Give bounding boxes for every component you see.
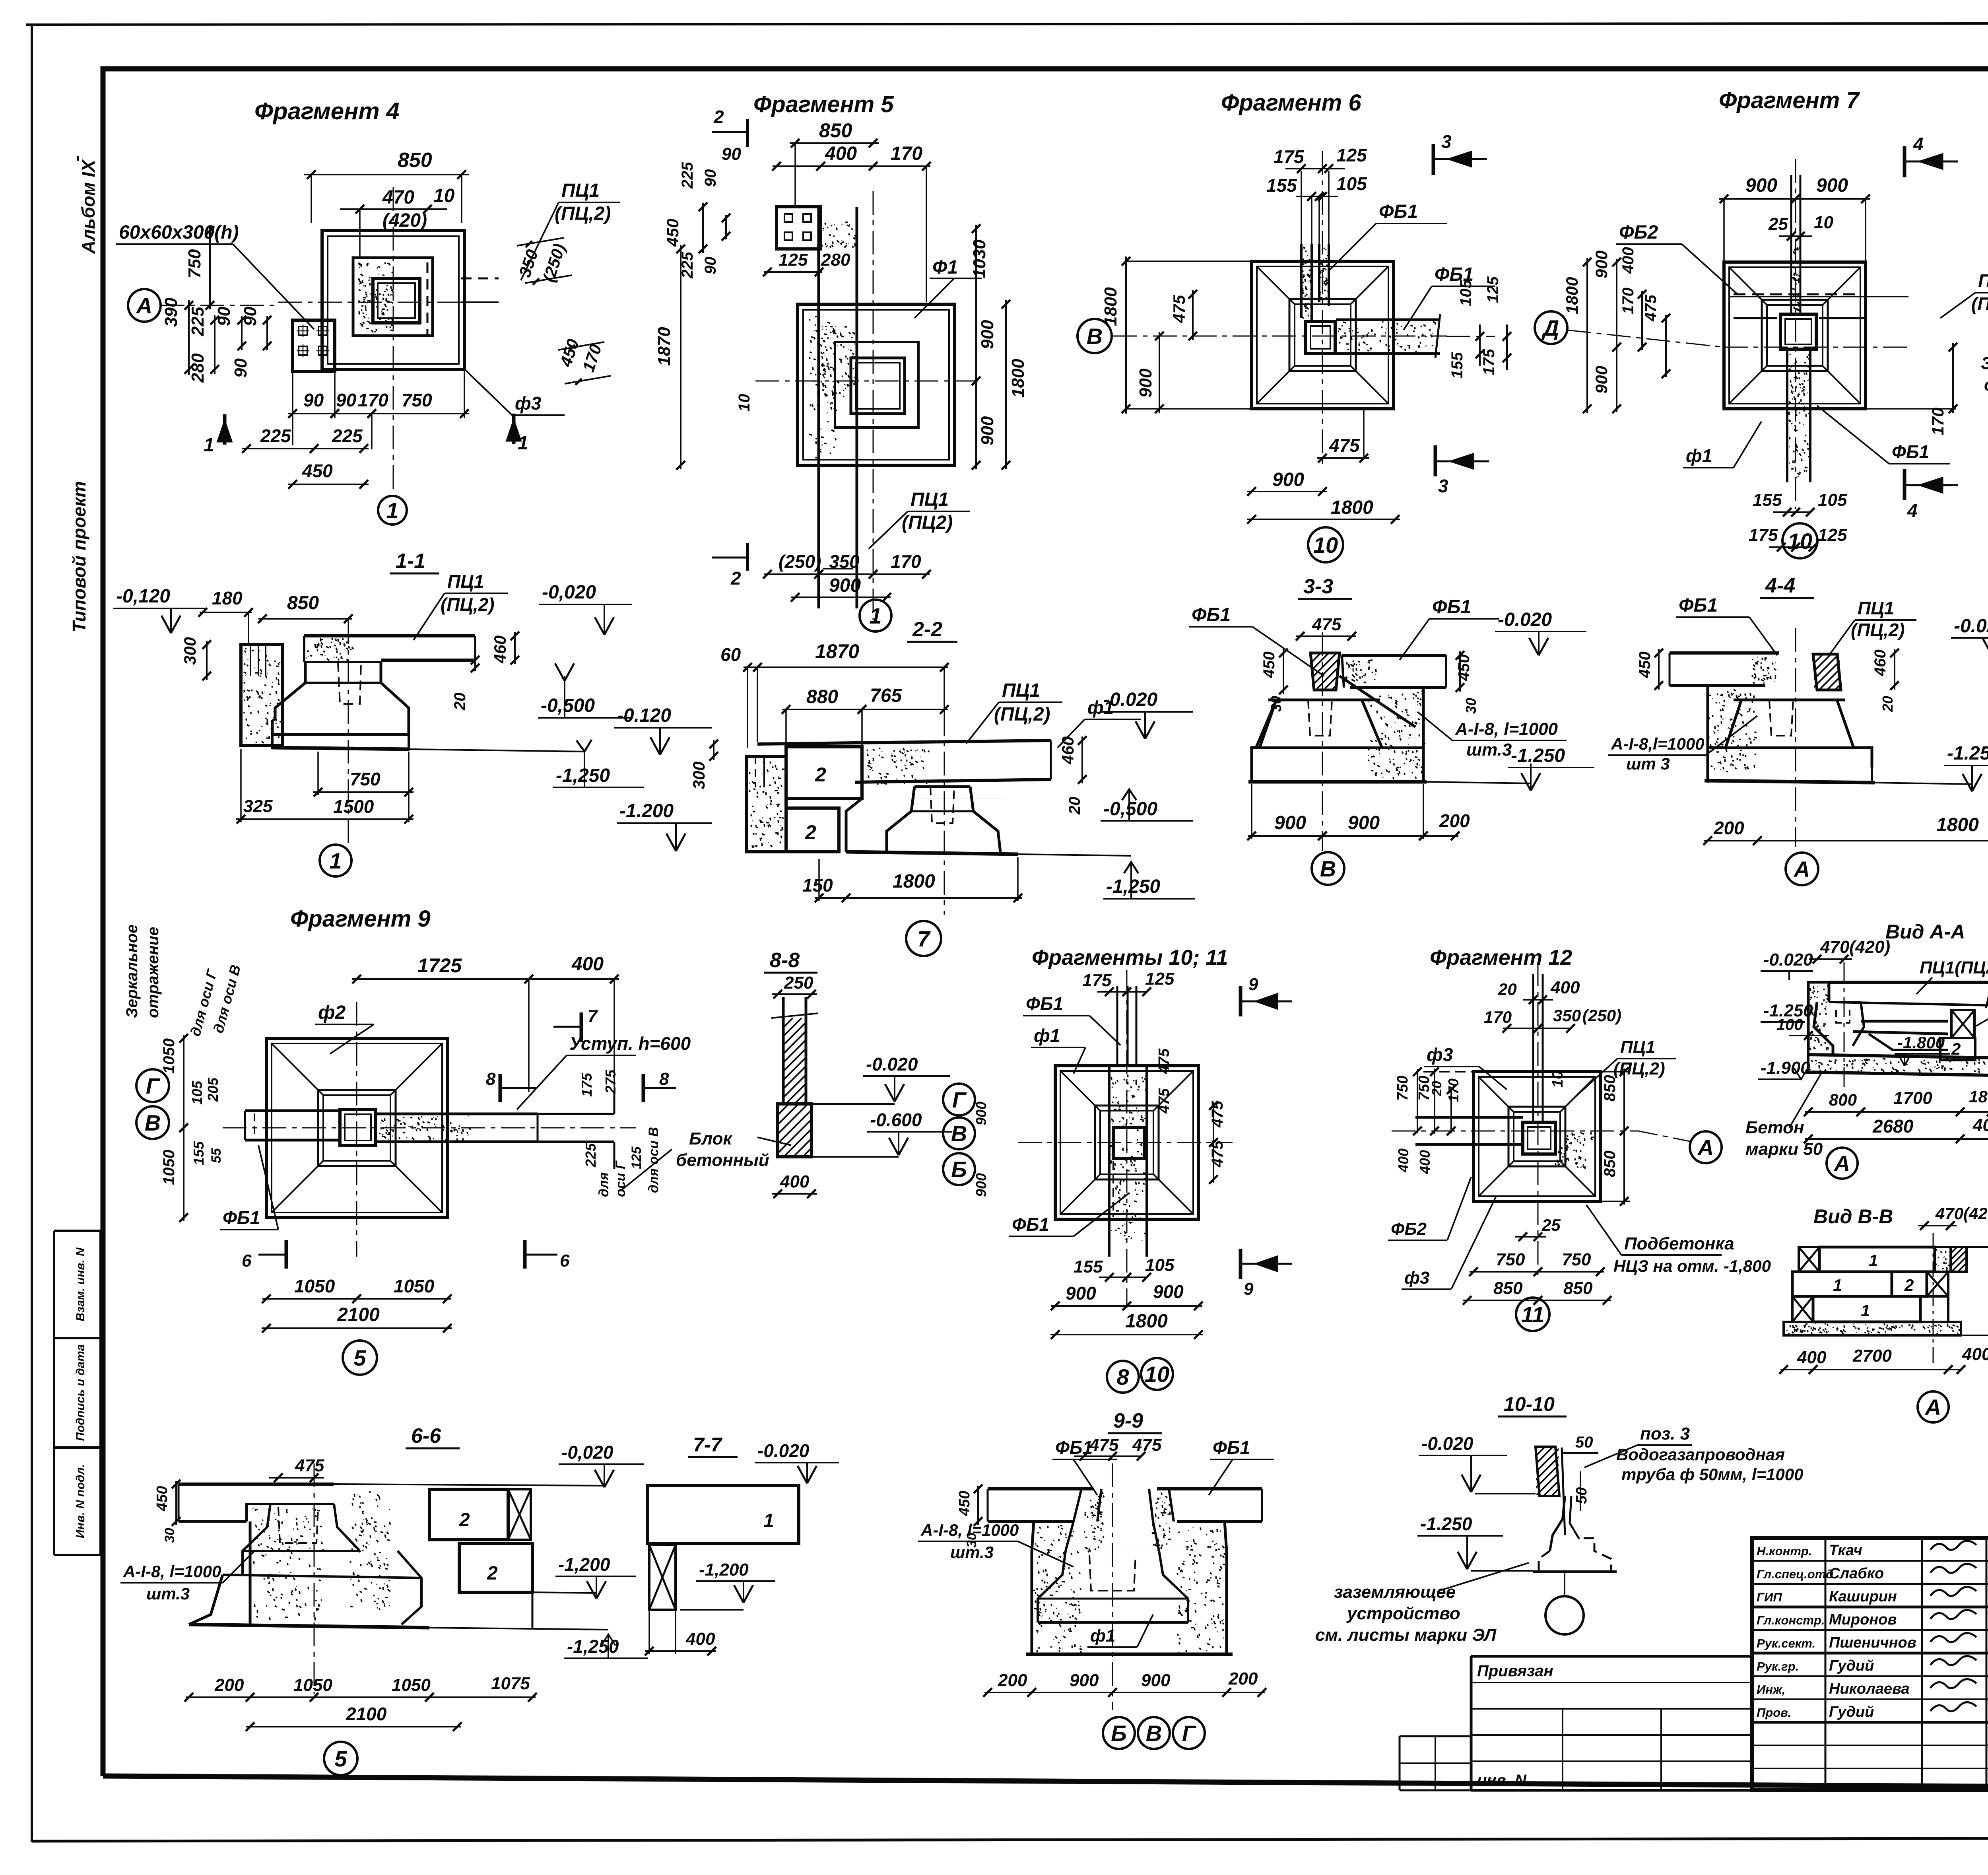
svg-text:А-I-8,l=1000: А-I-8,l=1000: [1611, 734, 1705, 753]
svg-text:60: 60: [720, 644, 741, 665]
svg-text:ПЦ1: ПЦ1: [1978, 270, 1988, 291]
fragment 12 center column square: [1523, 1122, 1555, 1154]
node circle А: [128, 289, 161, 322]
svg-text:470(420): 470(420): [1820, 937, 1890, 957]
svg-text:900: 900: [1274, 812, 1306, 834]
svg-text:460: 460: [491, 635, 509, 664]
svg-text:850: 850: [1601, 1075, 1619, 1102]
svg-text:170: 170: [358, 390, 388, 410]
svg-text:150: 150: [802, 875, 833, 896]
fragment 12 plan envelope square: [1474, 1072, 1600, 1201]
svg-text:90: 90: [231, 358, 250, 378]
svg-text:30: 30: [1268, 696, 1284, 712]
section 6-6 centerline: [314, 1463, 315, 1694]
svg-text:900: 900: [829, 575, 861, 596]
svg-text:9-9: 9-9: [1113, 1409, 1143, 1432]
fragment 9 bottom section marks 6: [285, 1240, 288, 1269]
section mark 1 right: [512, 414, 516, 444]
section 4-4 beam left: [1670, 651, 1779, 655]
section 3-3 beam right: [1342, 654, 1446, 657]
section 6-6 beam top left: [179, 1483, 334, 1486]
vid A-A left speckled band: [1808, 982, 1829, 1050]
svg-text:отражение: отражение: [1984, 375, 1988, 394]
vid A-A top slab: [1829, 981, 1988, 984]
svg-text:А-I-8, l=1000: А-I-8, l=1000: [123, 1562, 221, 1581]
section 9-9 base slab: [1026, 1653, 1233, 1656]
svg-text:В: В: [1320, 856, 1336, 881]
svg-text:ПЦ1: ПЦ1: [447, 571, 484, 592]
svg-text:850: 850: [1563, 1278, 1593, 1298]
svg-text:ПЦ1: ПЦ1: [561, 180, 600, 201]
fragment 6 plan envelope square: [1252, 261, 1394, 409]
svg-text:Пров.: Пров.: [1757, 1706, 1792, 1720]
section 7-7 beam 1: [648, 1486, 799, 1543]
section 9-9 speckled outer mass: [1032, 1551, 1227, 1654]
section 1-1 centerline: [348, 620, 349, 843]
svg-text:475: 475: [1209, 1101, 1226, 1128]
svg-text:90: 90: [303, 390, 324, 410]
svg-text:100: 100: [1776, 1016, 1803, 1034]
svg-text:6: 6: [560, 1251, 570, 1271]
svg-text:280: 280: [821, 250, 850, 270]
svg-text:Рук.сект.: Рук.сект.: [1757, 1636, 1815, 1650]
section 2-2 left pier speckled: [747, 756, 786, 852]
section 4-4 centerline: [1795, 628, 1796, 847]
svg-text:1800: 1800: [1008, 359, 1028, 398]
vid V-V base slab: [1784, 1322, 1961, 1335]
fragment 5 plan outer square: [798, 304, 955, 465]
svg-text:бетонный: бетонный: [676, 1150, 769, 1170]
svg-text:200: 200: [1713, 818, 1744, 838]
svg-text:ф1: ф1: [1686, 445, 1712, 466]
fragments 10-11 vertical strips: [1116, 986, 1118, 1066]
svg-text:ФБ1: ФБ1: [1012, 1214, 1049, 1235]
svg-text:ФБ2: ФБ2: [1391, 1219, 1427, 1239]
vid A-A middle plate: [1861, 1020, 1948, 1023]
fragment 5 bolt plate top: [777, 207, 821, 249]
svg-text:Рук.гр.: Рук.гр.: [1757, 1659, 1799, 1673]
title block left columns verticals: [1825, 1538, 1827, 1790]
svg-text:475: 475: [1170, 295, 1188, 323]
svg-text:170: 170: [891, 551, 921, 572]
svg-text:2: 2: [805, 821, 816, 843]
привязан mini table: [1471, 1655, 1752, 1658]
svg-text:125: 125: [629, 1146, 644, 1169]
svg-text:6-6: 6-6: [411, 1424, 441, 1448]
svg-text:105: 105: [1145, 1255, 1175, 1275]
svg-text:3-3: 3-3: [1303, 575, 1333, 598]
vid V-V top row: [1799, 1247, 1819, 1272]
section mark 4 bottom right: [1903, 469, 1906, 500]
svg-text:1800: 1800: [1125, 1311, 1168, 1332]
svg-text:900: 900: [973, 1102, 989, 1125]
svg-text:7-7: 7-7: [693, 1434, 722, 1456]
svg-text:1725: 1725: [417, 954, 462, 977]
axis circle 5 6-6: [324, 1742, 357, 1775]
fragment 7 centerlines: [1724, 347, 1908, 348]
fragment 7 vertical strip bottom speckled: [1786, 349, 1788, 482]
svg-text:750: 750: [350, 769, 381, 789]
svg-text:225: 225: [679, 162, 696, 189]
svg-text:-0,020: -0,020: [561, 1442, 613, 1463]
svg-text:марки 50: марки 50: [1745, 1139, 1823, 1159]
svg-text:Зеркальное: Зеркальное: [1981, 354, 1988, 373]
svg-text:900: 900: [978, 320, 997, 349]
svg-text:ф2: ф2: [318, 1002, 346, 1023]
svg-text:Гудий: Гудий: [1829, 1704, 1874, 1720]
section 1-1 base slab: [272, 720, 409, 734]
section mark 2 top: [746, 119, 749, 147]
svg-text:10: 10: [1788, 528, 1812, 554]
svg-text:Зеркальное: Зеркальное: [123, 925, 141, 1018]
svg-text:400: 400: [1395, 1148, 1411, 1173]
fragments 10-11 center square: [1113, 1127, 1144, 1158]
vid A-A x-box and block 2: [1951, 1010, 1974, 1038]
svg-text:-1,250: -1,250: [556, 765, 610, 786]
svg-text:8: 8: [486, 1069, 496, 1089]
svg-text:200: 200: [998, 1671, 1027, 1690]
section 4-4 hatched block right: [1813, 654, 1841, 690]
section 3-3 hatched block ФБ1: [1310, 653, 1340, 690]
svg-text:1030: 1030: [970, 239, 989, 278]
axis circle А vid A-A: [1827, 1148, 1858, 1179]
svg-text:-1.250: -1.250: [1511, 745, 1565, 766]
svg-text:475: 475: [1156, 1088, 1173, 1114]
section 1-1 beam ПЦ1: [304, 634, 475, 637]
section 9-9 inner trapezoid: [1038, 1551, 1066, 1622]
svg-text:170: 170: [1928, 408, 1947, 435]
svg-text:-0.020: -0.020: [757, 1440, 810, 1461]
svg-text:1800: 1800: [1331, 497, 1373, 518]
svg-text:1: 1: [1861, 1301, 1870, 1320]
svg-text:750: 750: [1562, 1250, 1591, 1269]
svg-text:1: 1: [386, 498, 398, 523]
svg-text:25: 25: [1541, 1216, 1561, 1234]
svg-text:Ткач: Ткач: [1829, 1542, 1862, 1559]
svg-text:Пшеничнов: Пшеничнов: [1829, 1634, 1916, 1651]
svg-text:-0.020: -0.020: [1763, 950, 1813, 970]
svg-text:125: 125: [1336, 145, 1367, 165]
fragment 4 plan inner concrete square speckled: [353, 258, 433, 336]
svg-text:3: 3: [1438, 476, 1448, 496]
svg-text:225: 225: [260, 426, 291, 446]
svg-text:-0,120: -0,120: [116, 586, 170, 607]
svg-text:Фрагмент 4: Фрагмент 4: [254, 98, 400, 124]
svg-text:(250): (250): [779, 551, 821, 572]
svg-text:850: 850: [819, 119, 852, 142]
svg-text:750: 750: [1496, 1250, 1525, 1269]
svg-text:Б: Б: [951, 1157, 967, 1182]
svg-text:устройство: устройство: [1346, 1604, 1460, 1623]
fragment 12 vertical lines top: [1532, 974, 1534, 1122]
svg-text:1075: 1075: [491, 1674, 530, 1693]
svg-text:Б: Б: [1111, 1721, 1127, 1746]
svg-text:20: 20: [1498, 980, 1517, 999]
svg-text:9: 9: [1248, 975, 1258, 994]
svg-text:(ПЦ,2): (ПЦ,2): [441, 594, 495, 615]
svg-text:-0.020: -0.020: [1103, 689, 1157, 710]
svg-text:175: 175: [1749, 525, 1778, 545]
svg-text:5: 5: [334, 1746, 347, 1771]
svg-text:90: 90: [241, 307, 260, 326]
svg-text:200: 200: [214, 1675, 244, 1695]
svg-text:см. листы марки ЭЛ: см. листы марки ЭЛ: [1315, 1625, 1497, 1645]
svg-text:175: 175: [579, 1073, 595, 1097]
section 6-6 base: [223, 1575, 421, 1578]
svg-text:1800: 1800: [893, 871, 935, 892]
svg-text:ф1: ф1: [1090, 1626, 1115, 1646]
svg-text:450: 450: [956, 1491, 973, 1516]
svg-text:105: 105: [1336, 173, 1367, 194]
svg-text:-1.250: -1.250: [1947, 743, 1988, 764]
svg-text:900: 900: [1066, 1283, 1096, 1304]
svg-text:460: 460: [1058, 736, 1077, 765]
svg-text:Фрагмент 5: Фрагмент 5: [753, 91, 894, 117]
svg-text:275: 275: [602, 1069, 619, 1094]
svg-text:155: 155: [1753, 490, 1782, 510]
svg-text:Альбом IХ: Альбом IХ: [78, 159, 99, 254]
section mark 1 left: [223, 414, 227, 445]
left small boxes near привязан: [1400, 1735, 1471, 1737]
svg-text:Инв. N подл.: Инв. N подл.: [74, 1464, 87, 1539]
section 6-6 block 2 lower: [459, 1543, 532, 1592]
svg-text:1050: 1050: [392, 1675, 431, 1695]
svg-text:175: 175: [1082, 971, 1112, 990]
svg-text:труба ф 50мм, l=1000: труба ф 50мм, l=1000: [1621, 1465, 1803, 1484]
section 3-3 dashed pocket: [1308, 700, 1332, 736]
axis circle 11 fragment 12: [1516, 1298, 1549, 1331]
svg-text:ФБ1: ФБ1: [1432, 597, 1471, 618]
svg-text:1870: 1870: [815, 640, 859, 663]
svg-text:Водогазапроводная: Водогазапроводная: [1616, 1445, 1785, 1464]
svg-text:400: 400: [1619, 247, 1637, 274]
svg-text:400: 400: [1962, 1345, 1988, 1364]
svg-text:1-1: 1-1: [396, 550, 425, 573]
svg-text:1: 1: [329, 848, 342, 873]
svg-text:инв. N: инв. N: [1477, 1772, 1527, 1789]
svg-text:Блок: Блок: [689, 1129, 733, 1148]
svg-text:1800: 1800: [1101, 287, 1120, 326]
svg-text:А: А: [136, 293, 152, 318]
section 6-6 block 2 with xbox: [429, 1489, 508, 1540]
svg-text:90: 90: [702, 257, 719, 275]
svg-text:Слабко: Слабко: [1829, 1565, 1884, 1582]
svg-text:10: 10: [433, 185, 455, 206]
svg-text:125: 125: [1484, 276, 1502, 303]
axis circle А vid V-V: [1918, 1391, 1949, 1422]
svg-text:470: 470: [382, 187, 414, 208]
svg-text:50: 50: [1575, 1434, 1593, 1451]
svg-text:900: 900: [978, 416, 997, 445]
svg-text:400: 400: [1417, 1150, 1433, 1174]
svg-text:ф1: ф1: [1034, 1025, 1060, 1046]
svg-text:Гл.спец.отд: Гл.спец.отд: [1757, 1567, 1833, 1581]
fragment 5 centerlines: [755, 381, 978, 382]
svg-text:1: 1: [869, 603, 881, 628]
circle В fragment 6: [1077, 319, 1112, 353]
svg-text:25: 25: [1768, 214, 1788, 234]
svg-text:2680: 2680: [1872, 1116, 1914, 1137]
svg-text:-1,200: -1,200: [699, 1560, 749, 1580]
svg-text:170: 170: [1619, 288, 1637, 314]
svg-text:1: 1: [518, 433, 528, 454]
svg-text:900: 900: [1153, 1281, 1184, 1302]
svg-text:800: 800: [1829, 1090, 1857, 1109]
svg-text:105: 105: [1457, 280, 1475, 306]
svg-text:В: В: [951, 1121, 967, 1146]
section mark 3 top right: [1432, 144, 1435, 175]
fragment 6 vertical strips ФБ1: [1300, 244, 1303, 318]
svg-text:Вид А-А: Вид А-А: [1885, 921, 1965, 943]
svg-text:1050: 1050: [294, 1276, 335, 1296]
svg-text:4: 4: [1907, 500, 1918, 521]
svg-text:900: 900: [1070, 1671, 1099, 1690]
svg-text:Фрагмент 6: Фрагмент 6: [1221, 90, 1361, 116]
svg-text:Николаева: Николаева: [1829, 1681, 1910, 1697]
svg-text:105: 105: [1818, 490, 1847, 510]
svg-text:8-8: 8-8: [770, 949, 800, 972]
svg-text:10: 10: [1145, 1362, 1169, 1387]
svg-text:400: 400: [571, 954, 604, 975]
svg-text:ПЦ1: ПЦ1: [911, 489, 949, 510]
svg-text:Г: Г: [952, 1087, 967, 1112]
svg-text:ФБ1: ФБ1: [1026, 993, 1063, 1014]
svg-text:2: 2: [459, 1510, 470, 1531]
fragment 5 inner squares: [835, 342, 918, 427]
fragment 9 centerlines: [223, 1127, 636, 1129]
svg-text:180: 180: [212, 588, 243, 608]
section 10-10 hatched post: [1536, 1447, 1559, 1496]
fragments 10-11 centerlines: [1018, 1142, 1233, 1143]
section 8-8 hatched column: [782, 997, 785, 1104]
section 2-2 dashed pocket: [930, 787, 954, 823]
svg-text:Взам. инв. N: Взам. инв. N: [74, 1247, 87, 1321]
svg-text:400: 400: [1972, 1115, 1988, 1135]
section 9-9 pier columns speckled: [1066, 1489, 1081, 1551]
fragment 9 beam strip right speckled: [376, 1113, 538, 1115]
svg-text:225: 225: [188, 307, 208, 336]
section mark 9 bottom right: [1239, 1249, 1242, 1279]
svg-text:1700: 1700: [1893, 1088, 1932, 1108]
circle А fragment 12: [1690, 1131, 1722, 1163]
fragment 4 bolt plate: [293, 320, 335, 371]
svg-text:1800: 1800: [1936, 814, 1979, 835]
svg-text:1: 1: [204, 435, 214, 456]
svg-text:Д: Д: [1541, 315, 1559, 340]
svg-text:475: 475: [1089, 1435, 1119, 1455]
svg-text:55: 55: [209, 1148, 224, 1163]
fragment 4 centerlines: [278, 302, 499, 303]
svg-text:2: 2: [1951, 1040, 1961, 1058]
fragment 9 plan envelope square: [266, 1038, 447, 1218]
svg-text:1: 1: [1833, 1276, 1842, 1294]
svg-text:1050: 1050: [293, 1675, 332, 1695]
fragments 10-11 plan envelope square: [1055, 1066, 1198, 1219]
svg-text:-1.250: -1.250: [1420, 1514, 1472, 1534]
section 9-9 beams left right: [988, 1487, 1093, 1490]
svg-text:475: 475: [1312, 615, 1342, 634]
svg-text:Типовой проект: Типовой проект: [69, 481, 89, 632]
svg-text:5: 5: [353, 1345, 366, 1370]
svg-text:10: 10: [1814, 213, 1833, 232]
svg-text:475: 475: [1642, 295, 1660, 322]
svg-text:Миронов: Миронов: [1829, 1611, 1897, 1628]
svg-text:шт 3: шт 3: [1626, 754, 1670, 773]
svg-text:(ПЦ,2): (ПЦ,2): [555, 203, 611, 224]
svg-text:Фрагмент 12: Фрагмент 12: [1430, 946, 1572, 970]
svg-text:1050: 1050: [394, 1276, 435, 1296]
fragment 6 centerlines: [1113, 336, 1447, 337]
axis circle empty 10-10: [1545, 1596, 1584, 1634]
svg-text:1800: 1800: [1563, 277, 1581, 314]
svg-text:200: 200: [1439, 810, 1470, 831]
svg-text:В: В: [1146, 1721, 1162, 1746]
svg-text:30: 30: [964, 1533, 979, 1548]
svg-text:поз. 3: поз. 3: [1640, 1424, 1690, 1444]
fragment 7 vertical strip top: [1790, 175, 1792, 314]
svg-text:180: 180: [1969, 1087, 1988, 1106]
svg-text:460: 460: [1872, 649, 1889, 676]
section 6-6 trapezoid core: [243, 1504, 270, 1575]
section 4-4 speckled mass left: [1708, 690, 1757, 772]
svg-text:1050: 1050: [160, 1038, 178, 1074]
svg-text:ПЦ1: ПЦ1: [1858, 598, 1894, 618]
section 2-2 block 2 upper: [786, 747, 862, 799]
svg-text:А: А: [1924, 1395, 1941, 1420]
svg-text:(ПЦ,2): (ПЦ,2): [994, 704, 1050, 725]
svg-text:900: 900: [1592, 251, 1611, 278]
svg-text:6: 6: [242, 1251, 252, 1271]
svg-text:300: 300: [181, 637, 199, 665]
svg-text:900: 900: [973, 1173, 989, 1197]
svg-text:-0,500: -0,500: [541, 695, 595, 716]
svg-text:475: 475: [295, 1456, 324, 1475]
svg-text:ФБ1: ФБ1: [1379, 201, 1418, 222]
svg-text:-1,200: -1,200: [558, 1554, 610, 1575]
outer sheet border bottom (skewed): [32, 1838, 1988, 1841]
svg-text:8: 8: [1116, 1364, 1129, 1389]
section 10-10 footing dashed: [1539, 1538, 1611, 1572]
svg-text:Фрагмент 9: Фрагмент 9: [290, 906, 431, 932]
section 2-2 centerline: [944, 712, 945, 915]
svg-text:155: 155: [1448, 352, 1466, 379]
svg-text:10-10: 10-10: [1504, 1393, 1555, 1415]
section 8-8 hatched base block: [778, 1104, 812, 1157]
svg-text:20: 20: [451, 693, 469, 711]
fragment 4 plan outer square: [322, 231, 464, 369]
fragment 9 beam strip left: [245, 1109, 340, 1112]
fragment 12 beam left dashed: [1415, 1116, 1523, 1119]
svg-text:400: 400: [780, 1172, 810, 1191]
axis circle 5 fragment 9: [343, 1341, 377, 1375]
svg-text:170: 170: [891, 143, 922, 164]
svg-text:(ПЦ2): (ПЦ2): [902, 512, 953, 533]
svg-text:ФБ1: ФБ1: [1055, 1437, 1093, 1458]
section 1-1 dashed pocket: [338, 662, 361, 704]
svg-text:50: 50: [1573, 1487, 1590, 1504]
svg-text:2100: 2100: [337, 1304, 380, 1325]
svg-text:Гл.констр.: Гл.констр.: [1757, 1613, 1825, 1627]
svg-text:10: 10: [1549, 1071, 1566, 1088]
svg-text:200: 200: [1228, 1669, 1258, 1688]
svg-text:205: 205: [205, 1077, 221, 1102]
svg-text:1500: 1500: [333, 796, 374, 817]
svg-text:Н.контр.: Н.контр.: [1757, 1544, 1812, 1558]
svg-text:300: 300: [689, 762, 708, 789]
svg-text:850: 850: [398, 149, 432, 172]
svg-text:7: 7: [917, 926, 931, 951]
svg-text:390: 390: [161, 297, 181, 327]
